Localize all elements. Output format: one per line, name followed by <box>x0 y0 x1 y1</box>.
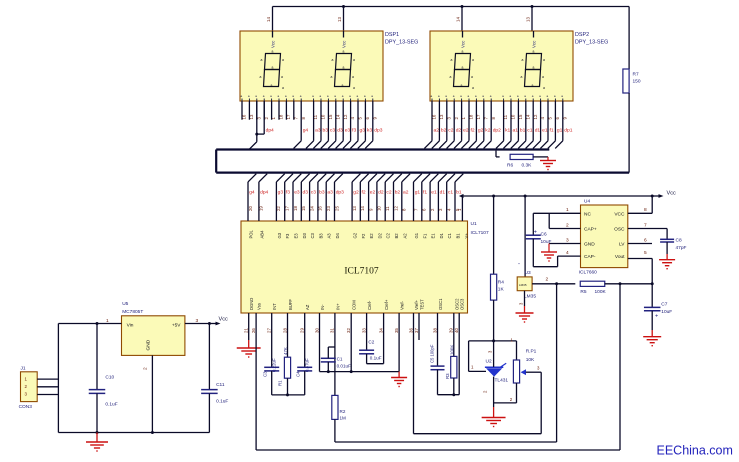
svg-text:8: 8 <box>644 207 647 213</box>
svg-text:Vcc: Vcc <box>271 40 276 48</box>
svg-text:C6: C6 <box>541 231 547 237</box>
svg-text:k2: k2 <box>485 128 490 134</box>
svg-text:F1: F1 <box>422 233 427 239</box>
svg-text:g1: g1 <box>415 190 421 196</box>
svg-text:ICL7107: ICL7107 <box>471 230 489 236</box>
svg-text:b3: b3 <box>319 190 325 196</box>
svg-text:+: + <box>534 229 537 235</box>
svg-text:a3: a3 <box>327 190 333 196</box>
svg-text:1: 1 <box>566 207 569 213</box>
svg-text:Cref+: Cref+ <box>384 299 389 310</box>
svg-text:C3: C3 <box>263 371 268 377</box>
svg-text:k1: k1 <box>505 128 510 134</box>
svg-text:0.1uF: 0.1uF <box>370 355 382 360</box>
svg-text:R.P1: R.P1 <box>526 349 537 355</box>
svg-text:b2: b2 <box>441 128 447 134</box>
svg-text:13: 13 <box>526 17 531 22</box>
svg-text:g3: g3 <box>360 128 366 134</box>
svg-text:DSP2: DSP2 <box>575 32 589 38</box>
svg-text:f2: f2 <box>362 190 366 196</box>
svg-text:+: + <box>655 314 658 320</box>
svg-text:MC7805T: MC7805T <box>122 309 143 315</box>
svg-text:a: a <box>521 75 523 79</box>
svg-text:IN+: IN+ <box>335 303 340 310</box>
svg-text:d1: d1 <box>440 190 446 196</box>
svg-text:U3: U3 <box>525 270 531 276</box>
svg-text:C7: C7 <box>661 302 667 308</box>
svg-text:E1: E1 <box>431 233 436 239</box>
svg-text:dp1: dp1 <box>564 128 572 134</box>
svg-text:B1: B1 <box>456 233 461 239</box>
svg-text:e3: e3 <box>345 128 351 134</box>
svg-text:c2: c2 <box>386 190 391 196</box>
svg-text:0.1uF: 0.1uF <box>105 402 117 408</box>
svg-text:12: 12 <box>393 206 398 211</box>
svg-text:16: 16 <box>432 114 437 119</box>
svg-text:V+: V+ <box>464 233 469 239</box>
svg-text:C8: C8 <box>676 238 682 244</box>
svg-text:a: a <box>272 66 274 70</box>
svg-text:18: 18 <box>279 114 284 119</box>
svg-text:12: 12 <box>343 114 348 119</box>
svg-text:17: 17 <box>286 114 291 119</box>
svg-text:1M: 1M <box>340 416 347 421</box>
svg-text:f3: f3 <box>286 190 290 196</box>
svg-text:E3: E3 <box>294 233 299 239</box>
svg-text:10: 10 <box>377 206 382 211</box>
svg-text:d3: d3 <box>303 190 309 196</box>
svg-text:Vout: Vout <box>615 254 625 260</box>
svg-text:g4: g4 <box>249 190 255 196</box>
svg-text:a: a <box>522 58 524 62</box>
svg-text:c3: c3 <box>330 128 335 134</box>
svg-text:31: 31 <box>330 328 335 333</box>
svg-text:BUFF: BUFF <box>288 299 293 310</box>
svg-text:Cref-: Cref- <box>367 300 372 310</box>
svg-text:11: 11 <box>385 206 390 211</box>
svg-text:17: 17 <box>476 114 481 119</box>
svg-text:47pF: 47pF <box>676 245 687 251</box>
svg-text:k3: k3 <box>367 128 372 134</box>
svg-text:VCC: VCC <box>614 211 625 217</box>
svg-text:a: a <box>343 66 345 70</box>
svg-text:26: 26 <box>251 328 256 333</box>
svg-text:CAP-: CAP- <box>584 254 596 260</box>
svg-text:F2: F2 <box>361 233 366 239</box>
svg-text:a: a <box>353 86 355 90</box>
svg-text:10K: 10K <box>526 357 535 363</box>
svg-text:Vss: Vss <box>257 303 262 310</box>
svg-text:R2: R2 <box>340 409 346 414</box>
svg-text:20: 20 <box>248 206 253 211</box>
svg-text:Vref-: Vref- <box>400 300 405 310</box>
svg-text:dp4: dp4 <box>266 128 274 134</box>
svg-text:6: 6 <box>644 237 647 243</box>
svg-text:33: 33 <box>361 328 366 333</box>
svg-text:Vcc: Vcc <box>461 40 466 48</box>
svg-text:e1: e1 <box>431 190 437 196</box>
svg-text:U2: U2 <box>486 359 492 365</box>
svg-text:INT: INT <box>272 303 277 310</box>
svg-text:14: 14 <box>335 114 340 119</box>
svg-text:a: a <box>271 84 273 88</box>
svg-text:15: 15 <box>518 114 523 119</box>
svg-text:a: a <box>461 84 463 88</box>
svg-text:a1: a1 <box>513 128 519 134</box>
svg-text:38: 38 <box>432 328 437 333</box>
svg-text:a: a <box>331 75 333 79</box>
svg-text:C2: C2 <box>368 340 374 345</box>
svg-text:B2: B2 <box>394 233 399 239</box>
svg-text:34: 34 <box>378 328 383 333</box>
svg-text:a: a <box>343 50 345 54</box>
svg-text:LM35: LM35 <box>524 293 536 299</box>
svg-text:EEChina.com: EEChina.com <box>657 444 733 458</box>
svg-text:14: 14 <box>360 206 365 211</box>
svg-text:dp3: dp3 <box>336 190 344 196</box>
svg-text:100K: 100K <box>595 289 607 295</box>
svg-text:30: 30 <box>314 328 319 333</box>
svg-text:e2: e2 <box>370 190 376 196</box>
svg-text:D3: D3 <box>302 232 307 238</box>
svg-text:OSC: OSC <box>614 227 625 233</box>
svg-text:d3: d3 <box>337 128 343 134</box>
svg-text:21: 21 <box>244 328 249 333</box>
svg-text:3: 3 <box>196 318 199 324</box>
svg-text:C11: C11 <box>216 382 225 388</box>
svg-text:14: 14 <box>456 17 461 22</box>
svg-text:R4: R4 <box>498 280 504 286</box>
svg-text:b2: b2 <box>395 190 401 196</box>
svg-text:C1: C1 <box>447 232 452 238</box>
svg-text:C2: C2 <box>386 232 391 238</box>
svg-text:10: 10 <box>511 114 516 119</box>
svg-text:AZ: AZ <box>305 304 310 310</box>
svg-text:e1: e1 <box>542 128 548 134</box>
svg-text:d2: d2 <box>378 190 384 196</box>
svg-text:27: 27 <box>267 328 272 333</box>
svg-text:32: 32 <box>346 328 351 333</box>
svg-text:COM: COM <box>352 300 357 310</box>
svg-text:G1: G1 <box>414 232 419 238</box>
svg-text:f2: f2 <box>471 128 475 134</box>
svg-text:a: a <box>533 50 535 54</box>
svg-text:c3: c3 <box>311 190 316 196</box>
svg-text:LM35: LM35 <box>519 283 527 287</box>
svg-text:7: 7 <box>644 222 647 228</box>
svg-text:R1: R1 <box>278 380 283 386</box>
svg-text:a: a <box>462 50 464 54</box>
svg-text:4: 4 <box>566 250 569 256</box>
svg-text:15: 15 <box>301 206 306 211</box>
svg-text:Vcc: Vcc <box>342 40 347 48</box>
svg-text:g2: g2 <box>353 190 359 196</box>
svg-text:DPY_13-SEG: DPY_13-SEG <box>385 40 418 46</box>
svg-text:A2: A2 <box>402 233 407 239</box>
svg-text:C5 100pF: C5 100pF <box>430 344 435 363</box>
svg-text:GND: GND <box>584 242 595 248</box>
svg-text:a: a <box>261 58 263 62</box>
svg-text:11: 11 <box>313 114 318 119</box>
svg-text:0.3K: 0.3K <box>522 163 533 169</box>
svg-text:POL: POL <box>249 229 254 238</box>
svg-text:f3: f3 <box>352 128 356 134</box>
svg-text:+5V: +5V <box>172 323 181 329</box>
svg-text:a: a <box>471 75 473 79</box>
svg-text:a: a <box>472 86 474 90</box>
svg-text:13: 13 <box>249 114 254 119</box>
svg-text:E2: E2 <box>369 233 374 239</box>
svg-text:G3: G3 <box>277 232 282 238</box>
svg-text:5: 5 <box>644 250 647 256</box>
svg-text:13: 13 <box>352 206 357 211</box>
svg-text:Vcc: Vcc <box>532 40 537 48</box>
svg-text:CON3: CON3 <box>19 404 33 410</box>
svg-text:f1: f1 <box>550 128 554 134</box>
svg-text:35: 35 <box>394 328 399 333</box>
svg-text:-: - <box>518 262 520 268</box>
svg-text:dp2: dp2 <box>493 128 501 134</box>
svg-text:a: a <box>353 58 355 62</box>
svg-text:d1: d1 <box>535 128 541 134</box>
svg-text:b1: b1 <box>520 128 526 134</box>
svg-text:2: 2 <box>546 277 549 283</box>
svg-text:36: 36 <box>408 328 413 333</box>
svg-text:U1: U1 <box>471 221 477 227</box>
svg-text:U5: U5 <box>122 301 128 307</box>
svg-text:a: a <box>450 75 452 79</box>
svg-text:D4: D4 <box>335 232 340 238</box>
svg-text:F3: F3 <box>285 233 290 239</box>
svg-text:AB4: AB4 <box>259 230 264 239</box>
svg-text:29: 29 <box>300 328 305 333</box>
svg-text:C3: C3 <box>310 232 315 238</box>
svg-text:11: 11 <box>503 114 508 119</box>
svg-text:a: a <box>543 58 545 62</box>
svg-text:19: 19 <box>259 206 264 211</box>
svg-text:DPY_13-SEG: DPY_13-SEG <box>575 40 608 46</box>
svg-text:a: a <box>532 84 534 88</box>
svg-text:100K: 100K <box>449 345 454 355</box>
svg-text:a: a <box>281 75 283 79</box>
svg-text:Vcc: Vcc <box>219 317 229 323</box>
svg-text:25: 25 <box>334 206 339 211</box>
svg-text:R6: R6 <box>507 163 513 169</box>
svg-text:2: 2 <box>143 367 149 370</box>
svg-text:16: 16 <box>242 114 247 119</box>
svg-text:e3: e3 <box>294 190 300 196</box>
svg-text:a: a <box>260 75 262 79</box>
svg-text:1: 1 <box>106 318 109 324</box>
svg-text:D2: D2 <box>377 232 382 238</box>
svg-text:R3: R3 <box>445 373 450 379</box>
svg-text:U4: U4 <box>584 199 590 205</box>
svg-text:G2: G2 <box>353 232 358 238</box>
svg-text:a: a <box>282 58 284 62</box>
svg-text:a: a <box>543 86 545 90</box>
svg-text:0.1uF: 0.1uF <box>216 399 228 405</box>
svg-text:10: 10 <box>321 114 326 119</box>
svg-text:a: a <box>472 58 474 62</box>
svg-text:23: 23 <box>326 206 331 211</box>
svg-text:12: 12 <box>533 114 538 119</box>
svg-text:IN-: IN- <box>320 304 325 310</box>
svg-text:0.47uF: 0.47uF <box>304 358 309 372</box>
svg-text:37: 37 <box>414 328 419 333</box>
svg-text:c2: c2 <box>448 128 453 134</box>
svg-text:e2: e2 <box>463 128 469 134</box>
svg-text:GND: GND <box>146 339 152 350</box>
svg-text:a2: a2 <box>434 128 440 134</box>
svg-text:b3: b3 <box>323 128 329 134</box>
svg-text:a: a <box>342 84 344 88</box>
svg-text:ICL7660: ICL7660 <box>579 270 597 276</box>
svg-text:C4: C4 <box>296 371 301 377</box>
svg-text:dp3: dp3 <box>374 128 382 134</box>
svg-text:40: 40 <box>454 328 459 333</box>
svg-text:17: 17 <box>285 206 290 211</box>
svg-text:DSP1: DSP1 <box>385 32 399 38</box>
svg-text:13: 13 <box>337 17 342 22</box>
svg-text:a: a <box>542 75 544 79</box>
svg-text:D1: D1 <box>439 232 444 238</box>
svg-text:LV: LV <box>619 242 625 248</box>
svg-text:TL431: TL431 <box>495 378 509 384</box>
svg-text:Vref+: Vref+ <box>414 299 419 310</box>
svg-text:NC: NC <box>584 211 591 217</box>
svg-text:dp4: dp4 <box>260 190 268 196</box>
svg-text:b1: b1 <box>456 190 462 196</box>
svg-text:a3: a3 <box>315 128 321 134</box>
svg-text:R7: R7 <box>633 72 639 78</box>
svg-text:24: 24 <box>309 206 314 211</box>
svg-text:ICL7107: ICL7107 <box>344 267 379 277</box>
svg-text:150: 150 <box>633 79 641 85</box>
svg-text:C1: C1 <box>337 357 343 362</box>
svg-text:a: a <box>352 75 354 79</box>
svg-text:39: 39 <box>449 328 454 333</box>
svg-text:15: 15 <box>328 114 333 119</box>
svg-text:3: 3 <box>566 237 569 243</box>
svg-text:0.01uF: 0.01uF <box>337 363 351 368</box>
svg-text:14: 14 <box>266 17 271 22</box>
svg-text:c1: c1 <box>448 190 453 196</box>
svg-text:A3: A3 <box>327 233 332 239</box>
svg-text:a: a <box>451 58 453 62</box>
svg-text:a: a <box>332 58 334 62</box>
svg-text:OSC1: OSC1 <box>438 298 443 310</box>
svg-text:R5: R5 <box>580 289 586 295</box>
svg-text:a2: a2 <box>403 190 409 196</box>
svg-text:a: a <box>462 66 464 70</box>
svg-text:16: 16 <box>318 206 323 211</box>
svg-text:2: 2 <box>566 222 569 228</box>
svg-text:a: a <box>272 50 274 54</box>
svg-text:13: 13 <box>439 114 444 119</box>
svg-text:18: 18 <box>293 206 298 211</box>
svg-text:CAP+: CAP+ <box>584 227 597 233</box>
svg-text:1K: 1K <box>498 287 505 293</box>
svg-text:OSC2: OSC2 <box>454 298 459 310</box>
svg-text:a: a <box>282 86 284 90</box>
svg-text:d2: d2 <box>456 128 462 134</box>
svg-text:Vin: Vin <box>127 323 134 329</box>
svg-text:c1: c1 <box>527 128 532 134</box>
svg-text:J1: J1 <box>21 366 26 372</box>
svg-text:TEST: TEST <box>420 299 425 310</box>
svg-text:Vcc: Vcc <box>667 191 677 197</box>
svg-text:DGND: DGND <box>249 298 254 310</box>
svg-text:f1: f1 <box>423 190 427 196</box>
svg-text:47K: 47K <box>283 347 288 355</box>
svg-text:g4: g4 <box>303 128 309 134</box>
svg-text:B3: B3 <box>318 233 323 239</box>
svg-text:14: 14 <box>525 114 530 119</box>
svg-text:22: 22 <box>276 206 281 211</box>
svg-text:C10: C10 <box>105 375 114 381</box>
svg-text:OSC3: OSC3 <box>460 298 465 310</box>
svg-text:g2: g2 <box>478 128 484 134</box>
svg-text:a: a <box>533 66 535 70</box>
svg-text:10uF: 10uF <box>661 309 672 315</box>
svg-text:18: 18 <box>469 114 474 119</box>
svg-text:g1: g1 <box>557 128 563 134</box>
svg-text:0.22uF: 0.22uF <box>271 358 276 372</box>
svg-text:28: 28 <box>282 328 287 333</box>
svg-text:g3: g3 <box>278 190 284 196</box>
